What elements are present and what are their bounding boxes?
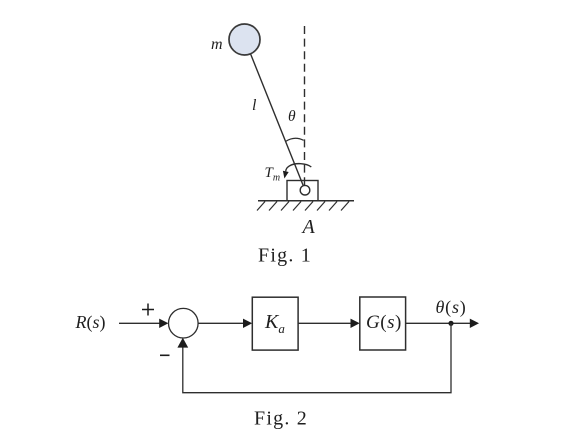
node dot xyxy=(448,321,453,326)
minus sign xyxy=(160,354,170,356)
svg-text:θ(s): θ(s) xyxy=(436,297,467,318)
output wire xyxy=(406,322,471,324)
block Gs xyxy=(360,297,406,350)
svg-text:θ: θ xyxy=(288,108,296,125)
wire junction to Ka xyxy=(198,322,244,324)
ground hatching xyxy=(257,202,349,211)
svg-text:m: m xyxy=(211,36,223,53)
svg-text:Tm: Tm xyxy=(265,165,281,184)
svg-text:G(s): G(s) xyxy=(366,312,402,333)
input arrowhead xyxy=(159,319,168,328)
svg-text:A: A xyxy=(301,216,316,238)
summing junction xyxy=(169,308,199,338)
pivot block xyxy=(287,181,318,201)
feedback wire xyxy=(183,323,451,392)
block Ka xyxy=(252,297,298,350)
svg-text:Fig. 1: Fig. 1 xyxy=(258,245,312,267)
svg-text:R(s): R(s) xyxy=(75,312,106,333)
wire Ka to Gs xyxy=(298,322,351,324)
svg-text:l: l xyxy=(252,97,257,114)
torque arc Tm xyxy=(286,164,312,172)
dashed vertical reference line xyxy=(304,26,306,186)
feedback arrowhead xyxy=(177,338,188,348)
arrowhead into Gs xyxy=(351,319,360,328)
output arrowhead xyxy=(470,319,479,328)
ground line xyxy=(258,200,354,202)
pendulum rod l xyxy=(251,54,304,187)
torque arrowhead xyxy=(283,171,289,179)
plus sign xyxy=(142,304,154,316)
svg-text:Fig. 2: Fig. 2 xyxy=(254,408,308,430)
mass m (ball) xyxy=(229,24,260,55)
pivot pin circle xyxy=(300,185,310,195)
input wire xyxy=(119,322,161,324)
theta angle arc xyxy=(286,138,304,141)
arrowhead into Ka xyxy=(243,319,252,328)
